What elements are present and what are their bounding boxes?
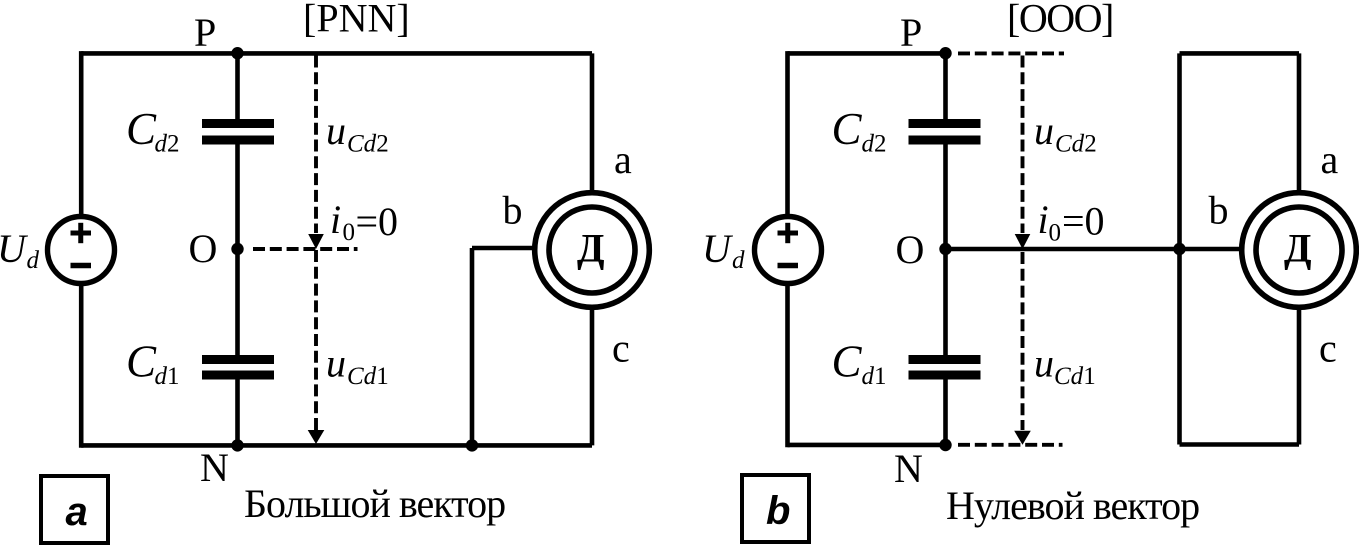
svg-text:=0: =0 [356,199,399,244]
svg-text:b: b [766,489,790,533]
svg-text:[PNN]: [PNN] [303,0,410,41]
svg-text:u: u [326,341,346,386]
svg-text:Д: Д [1284,226,1312,271]
svg-text:P: P [900,10,922,55]
svg-text:i: i [1038,197,1049,242]
svg-text:C: C [126,104,157,154]
svg-text:Cd1: Cd1 [347,363,389,390]
svg-text:d1: d1 [155,363,180,390]
svg-text:C: C [832,104,863,154]
svg-text:Нулевой вектор: Нулевой вектор [946,483,1199,528]
svg-text:d1: d1 [862,363,887,390]
svg-text:N: N [894,446,923,491]
svg-text:c: c [612,326,630,371]
svg-text:0: 0 [343,219,356,246]
svg-text:Cd1: Cd1 [1054,363,1096,390]
svg-text:O: O [896,227,925,272]
svg-text:d2: d2 [155,131,180,158]
svg-text:Большой вектор: Большой вектор [244,481,505,526]
svg-text:N: N [200,445,229,490]
svg-text:=0: =0 [1062,199,1105,244]
svg-text:[OOO]: [OOO] [1007,0,1113,41]
svg-text:b: b [1209,188,1229,233]
svg-text:a: a [614,137,632,182]
svg-text:Cd2: Cd2 [347,131,389,158]
svg-text:U: U [702,226,734,271]
svg-text:i: i [330,197,341,242]
svg-text:d2: d2 [862,131,887,158]
svg-text:a: a [66,490,88,534]
svg-text:d: d [732,247,745,274]
svg-text:C: C [832,337,863,387]
svg-text:b: b [503,188,523,233]
svg-text:u: u [1034,341,1054,386]
svg-text:Д: Д [577,226,605,271]
svg-text:U: U [0,226,29,271]
svg-text:c: c [1319,326,1337,371]
svg-text:0: 0 [1049,220,1062,247]
svg-text:C: C [126,337,157,387]
svg-text:u: u [1034,108,1054,153]
svg-text:u: u [326,108,346,153]
svg-text:O: O [189,226,218,271]
svg-text:a: a [1321,137,1339,182]
svg-text:P: P [194,10,216,55]
svg-text:d: d [27,247,40,274]
svg-text:Cd2: Cd2 [1055,131,1097,158]
